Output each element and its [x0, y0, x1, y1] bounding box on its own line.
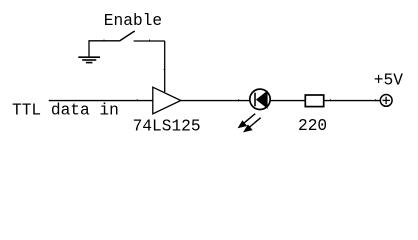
svg-text:220: 220	[298, 117, 327, 135]
svg-text:+5V: +5V	[374, 72, 403, 90]
svg-text:74LS125: 74LS125	[133, 118, 201, 136]
svg-text:TTL data in: TTL data in	[12, 102, 119, 120]
svg-text:Enable: Enable	[104, 12, 162, 30]
